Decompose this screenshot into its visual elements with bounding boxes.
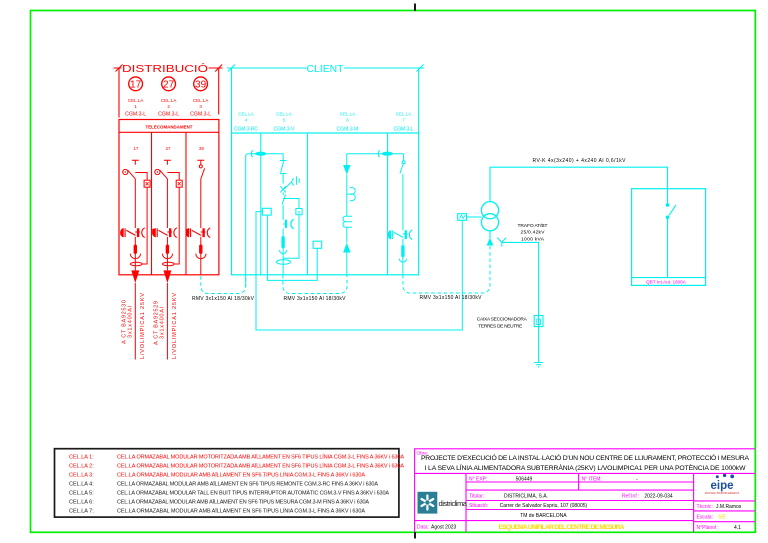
dimension tick right — [417, 65, 424, 72]
svg-text:Escala: Escala — [697, 514, 712, 520]
svg-text:CGM.3-L: CGM.3-L — [158, 112, 179, 118]
transformer tank earth box — [458, 214, 467, 221]
districlima logo square — [418, 492, 438, 514]
svg-text:ENGINYERIA I PROJECTES ENERGET: ENGINYERIA I PROJECTES ENERGETICS — [705, 491, 739, 495]
svg-text:L/VOLIMPICA1 25KV: L/VOLIMPICA1 25KV — [172, 293, 178, 359]
under-floor wire testbox to metering box — [267, 215, 317, 280]
svg-text::: : — [712, 504, 713, 510]
label CAIXA SECCIONADORA — [477, 317, 528, 330]
cell divider 1-2 — [151, 132, 153, 274]
row line under eipe — [694, 500, 756, 502]
svg-text:R: R — [297, 210, 300, 215]
extension line left — [118, 68, 120, 118]
svg-text:CGM.3-RC: CGM.3-RC — [234, 126, 258, 132]
svg-text:CEL.LA: CEL.LA — [340, 112, 356, 117]
node circle 27 — [162, 77, 176, 91]
svg-text:TRAFO AT/BT: TRAFO AT/BT — [518, 223, 548, 229]
svg-text:CGM.3-L: CGM.3-L — [125, 112, 146, 118]
svg-text:25/0.42kV: 25/0.42kV — [521, 230, 546, 236]
svg-text:CEL.LA 7:: CEL.LA 7: — [69, 508, 94, 514]
extension line left — [231, 68, 233, 133]
svg-text:CEL.LA 5:: CEL.LA 5: — [69, 491, 94, 497]
svg-text:RMV 3x1x150 Al 18/30kV: RMV 3x1x150 Al 18/30kV — [284, 296, 347, 302]
svg-text:CLIENT: CLIENT — [307, 64, 344, 75]
svg-text:27: 27 — [165, 146, 171, 151]
cell divider 2-3 — [185, 132, 187, 274]
svg-text:CAIXA SECCIONADORA: CAIXA SECCIONADORA — [477, 317, 528, 323]
cell 7 line column — [388, 154, 413, 275]
cell 1 switch group (motorized) — [120, 160, 150, 283]
svg-text:CGM.3-L: CGM.3-L — [190, 112, 211, 118]
row line under obra — [415, 472, 756, 474]
svg-text:4.1: 4.1 — [734, 525, 741, 531]
svg-text:CEL.LA ORMAZABAL MODULAR AMB A: CEL.LA ORMAZABAL MODULAR AMB AÏLLAMENT E… — [117, 472, 365, 479]
svg-text:DISTRIBUCIÓ: DISTRIBUCIÓ — [122, 62, 208, 75]
test box cell5 — [262, 208, 271, 215]
dimension tick left — [228, 65, 235, 72]
LV switchboard box — [632, 189, 706, 286]
svg-text:ESQUEMA UNIFILAR DEL CENTRE DE: ESQUEMA UNIFILAR DEL CENTRE DE MESURA — [499, 524, 625, 531]
svg-text:CGM.3-M: CGM.3-M — [337, 126, 359, 132]
svg-text:CGM.3-L: CGM.3-L — [394, 126, 414, 132]
bushing tab divider 1-2 — [152, 229, 155, 234]
extension line right — [418, 68, 420, 133]
svg-text:2022-09-034: 2022-09-034 — [644, 494, 673, 500]
svg-text:CEL.LA: CEL.LA — [128, 98, 144, 103]
svg-text:CEL.LA ORMAZABAL MODULAR MOTOR: CEL.LA ORMAZABAL MODULAR MOTORITZADA AMB… — [117, 453, 404, 460]
svg-text:3x1x400Al: 3x1x400Al — [128, 306, 134, 338]
svg-text:CEL.LA: CEL.LA — [193, 98, 209, 103]
top centre tick — [414, 4, 416, 12]
svg-text:N°Plànol :: N°Plànol : — [697, 525, 719, 531]
dimension tick right — [215, 65, 222, 72]
distribution switchgear box — [119, 120, 219, 275]
relay R loop cell5 — [283, 199, 299, 259]
neutral sectioning box — [534, 316, 543, 327]
eipe logo dots — [716, 474, 734, 479]
cell divider 5-6 — [306, 133, 308, 275]
label TRAFO — [518, 223, 548, 243]
neutral earthing wire — [502, 242, 539, 362]
svg-text:CEL.LA ORMAZABAL MODULAR AMB A: CEL.LA ORMAZABAL MODULAR AMB AÏLLAMENT E… — [117, 481, 378, 488]
svg-text:CGM.3-V: CGM.3-V — [274, 126, 296, 132]
cable cell5 to cell6 (dashed) — [283, 275, 347, 294]
svg-text:QBT Int.Aut. 1600A: QBT Int.Aut. 1600A — [646, 280, 687, 285]
svg-text:RMV 3x1x150 Al 18/30kV: RMV 3x1x150 Al 18/30kV — [192, 296, 255, 302]
dimension line CLIENT — [227, 67, 424, 69]
column divider right — [693, 473, 695, 532]
svg-text:N° EXP:: N° EXP: — [469, 476, 487, 482]
QBT label strip line — [632, 277, 706, 279]
node circle 17 — [129, 77, 143, 91]
bushing ellipse cell6/7 — [382, 152, 393, 156]
svg-text:CEL.LA 3:: CEL.LA 3: — [69, 473, 94, 479]
svg-text:CEL.LA: CEL.LA — [238, 112, 254, 117]
svg-text:Situació:: Situació: — [469, 503, 488, 509]
cell 5 breaker column — [276, 154, 299, 275]
cable distribution cell3 to client (dashed) — [201, 276, 246, 294]
feeder 1 labels — [122, 293, 179, 359]
svg-text:RMV 3x1x150 Al 18/30kV: RMV 3x1x150 Al 18/30kV — [420, 295, 483, 301]
cell 3 switch group (manual) — [186, 160, 211, 274]
cell 6 metering column — [343, 150, 404, 274]
feeder line 1 — [134, 283, 136, 360]
earth tail wire from test box — [256, 212, 462, 330]
svg-text:3x1x400Al: 3x1x400Al — [160, 307, 166, 339]
svg-text:DISTRICLIMA, S.A.: DISTRICLIMA, S.A. — [504, 494, 548, 500]
column divider exp/item — [578, 473, 580, 490]
wire transformer bottom stub — [489, 231, 491, 238]
svg-text:CEL.LA: CEL.LA — [396, 112, 412, 117]
svg-text:CEL.LA ORMAZABAL MODULAR TALL: CEL.LA ORMAZABAL MODULAR TALL EN BUIT TI… — [117, 490, 389, 497]
elbow arc cell4/5 — [251, 150, 253, 157]
svg-text:S/E: S/E — [718, 514, 727, 520]
dimension line DISTRIBUCIO — [114, 67, 223, 69]
svg-text:Tècnic: Tècnic — [697, 504, 712, 510]
districlima logo glyph — [422, 496, 434, 510]
row line under situacio — [466, 509, 694, 511]
row line under escala — [694, 521, 756, 523]
QBT breaker switch — [666, 204, 676, 278]
svg-text:J.M.Ramos: J.M.Ramos — [716, 504, 742, 510]
svg-text:17: 17 — [133, 146, 139, 151]
svg-text:Agost 2023: Agost 2023 — [431, 525, 457, 531]
svg-text:I LA SEVA LÍNIA ALIMENTADORA S: I LA SEVA LÍNIA ALIMENTADORA SUBTERRÀNIA… — [425, 463, 747, 472]
svg-text:17: 17 — [130, 80, 142, 91]
svg-text:districlima: districlima — [439, 499, 468, 508]
svg-text:CEL.LA 2:: CEL.LA 2: — [69, 464, 94, 470]
feeder line 2 — [166, 283, 168, 360]
svg-text:TM de BARCELONA: TM de BARCELONA — [520, 513, 567, 519]
bottom centre tick — [414, 532, 416, 539]
svg-text:L/VOLIMPICA1 25KV: L/VOLIMPICA1 25KV — [140, 293, 146, 359]
svg-text:CEL.LA 4:: CEL.LA 4: — [69, 482, 94, 488]
svg-text:CEL.LA ORMAZABAL MODULAR AMB A: CEL.LA ORMAZABAL MODULAR AMB AÏLLAMENT E… — [117, 498, 369, 505]
cell divider 4-5 — [260, 133, 262, 275]
node circle 39 — [194, 77, 208, 91]
cell 2 switch group (motorized) — [152, 160, 182, 283]
row line under TM — [415, 520, 694, 522]
telecomandament band line — [119, 131, 219, 133]
svg-text:PROJECTE D'EXECUCIÓ DE LA INST: PROJECTE D'EXECUCIÓ DE LA INSTAL·LACIÓ D… — [421, 453, 749, 462]
neutral star point symbol — [497, 238, 506, 247]
riser wire cell4 — [246, 154, 283, 287]
svg-text:1000 kVA: 1000 kVA — [521, 236, 545, 242]
svg-text:CEL.LA 6:: CEL.LA 6: — [69, 499, 94, 505]
row line under tecnic — [694, 510, 756, 512]
svg-text:27: 27 — [163, 80, 175, 91]
earth electrode symbol — [534, 363, 543, 367]
primary cable arrow (termination) — [487, 238, 494, 246]
column divider logo — [465, 473, 467, 532]
svg-text:CEL.LA ORMAZABAL MODULAR AMB A: CEL.LA ORMAZABAL MODULAR AMB AÏLLAMENT E… — [117, 507, 365, 514]
row line above titular — [466, 489, 694, 491]
svg-text:CEL.LA: CEL.LA — [161, 98, 177, 103]
VT winding — [343, 216, 352, 227]
transformer primary circle — [481, 202, 498, 219]
LV wire from transformer top to QBT — [490, 167, 668, 204]
svg-text:39: 39 — [195, 80, 207, 91]
svg-text:CEL.LA ORMAZABAL MODULAR MOTOR: CEL.LA ORMAZABAL MODULAR MOTORITZADA AMB… — [117, 463, 404, 470]
svg-text:CEL.LA: CEL.LA — [276, 112, 292, 117]
svg-text:39: 39 — [199, 146, 205, 151]
top jumper cell6-7 — [347, 153, 404, 155]
row line under titular — [466, 500, 694, 502]
svg-text:Carrer de Salvador Espriu, 107: Carrer de Salvador Espriu, 107 (08005) — [500, 503, 588, 509]
bushing ellipse cell4/5 — [255, 152, 266, 156]
relay box R cell5 — [296, 209, 302, 215]
cell divider 6-7 — [387, 133, 389, 275]
svg-text:N° ITEM:: N° ITEM: — [582, 476, 602, 482]
dimension tick left — [116, 65, 123, 72]
row line under exp — [466, 481, 694, 483]
svg-text:TERRES DE NEUTRE: TERRES DE NEUTRE — [478, 323, 522, 329]
wire tank earth box to transformer — [467, 216, 482, 218]
svg-text:Data:: Data: — [417, 525, 429, 531]
svg-text:TELECOMANDAMENT: TELECOMANDAMENT — [146, 125, 193, 131]
metering test box cell6 — [313, 241, 322, 248]
cable cell7 to transformer (dashed) — [403, 246, 490, 294]
extension line right — [218, 68, 220, 115]
label CEL.LA 1 — [128, 98, 209, 109]
svg-text:506449: 506449 — [516, 476, 533, 482]
svg-text:CEL.LA 1:: CEL.LA 1: — [69, 454, 94, 460]
client switchgear box — [232, 133, 419, 275]
svg-text:eipe: eipe — [710, 480, 733, 492]
svg-text::: : — [712, 514, 713, 520]
svg-text:Ref.Inf :: Ref.Inf : — [622, 494, 640, 500]
CT winding (digit-3 coil) — [347, 188, 355, 201]
svg-text:Titular:: Titular: — [469, 494, 484, 500]
bushing tab divider 2-3 — [187, 229, 190, 234]
title block outer border — [415, 449, 756, 533]
svg-text:RV-K 4x(3x240) + 4x240 Al 0,6/: RV-K 4x(3x240) + 4x240 Al 0,6/1kV — [533, 158, 627, 164]
transformer secondary circle — [481, 214, 498, 231]
